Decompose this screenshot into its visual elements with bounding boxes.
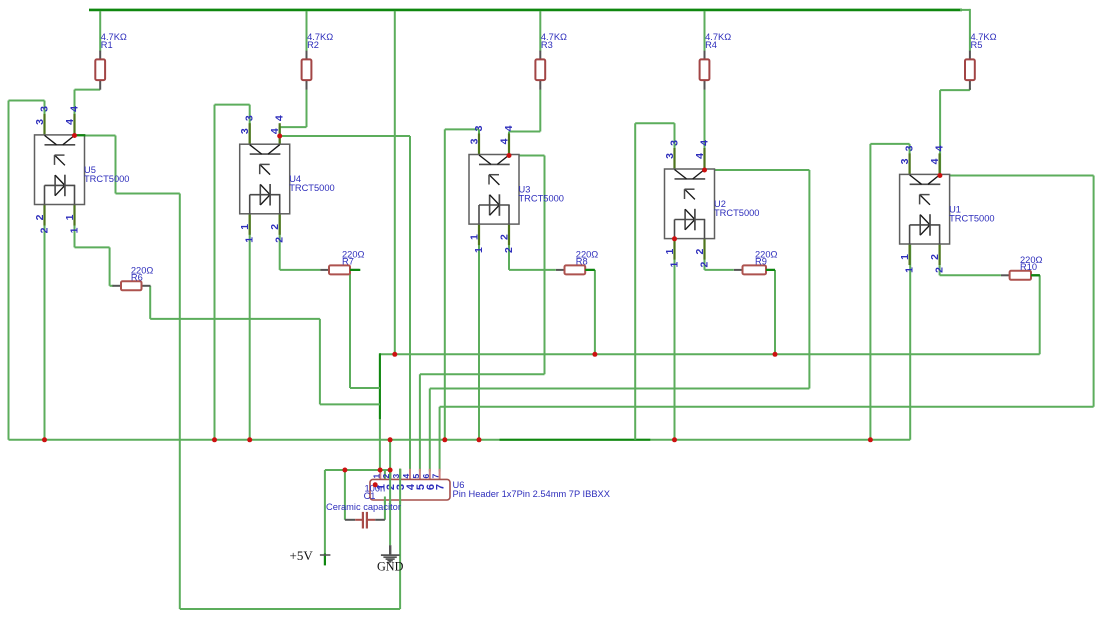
wire U1 pin1 to GND bus — [909, 244, 911, 440]
node +5V rail junction R9 — [773, 352, 778, 357]
svg-text:2: 2 — [929, 254, 941, 260]
wire R1 to U5 pin4 — [75, 90, 101, 136]
svg-text:4: 4 — [274, 115, 286, 121]
wire bus drop to R3 — [539, 11, 541, 51]
ground GND symbol — [377, 545, 404, 573]
wire U3 pin1 to GND bus — [478, 224, 480, 440]
node U4 collector junction — [277, 134, 282, 139]
resistor R2 4.7KΩ — [302, 32, 334, 90]
resistor R1 4.7KΩ — [95, 32, 127, 90]
optocoupler U3 TRCT5000 — [469, 125, 564, 253]
svg-text:4: 4 — [269, 128, 281, 134]
wire R3 to U3 pin4 — [509, 90, 540, 156]
svg-text:R7: R7 — [342, 257, 354, 267]
svg-text:Ceramic capacitor: Ceramic capacitor — [326, 502, 401, 512]
svg-text:4: 4 — [699, 140, 711, 146]
wire +5V LED rail — [380, 353, 1040, 355]
wire U4 pin1 to GND bus — [249, 214, 251, 440]
svg-text:1: 1 — [904, 267, 916, 273]
wire bus drop to R1 — [99, 11, 101, 51]
svg-text:3: 3 — [239, 128, 251, 134]
svg-text:C1: C1 — [364, 491, 376, 501]
wire GND bottom bus — [9, 439, 911, 441]
svg-text:R9: R9 — [755, 257, 767, 267]
wire top bus right extension to R5 — [960, 9, 970, 51]
pin header U6 Pin Header 1x7Pin 2.54mm 7P IBBXX — [370, 469, 610, 500]
node U3 collector junction — [507, 153, 512, 158]
svg-text:3: 3 — [39, 106, 51, 112]
svg-text:TRCT5000: TRCT5000 — [949, 213, 994, 223]
svg-text:5: 5 — [411, 473, 421, 478]
wire R4 to U2 pin4 — [704, 90, 706, 170]
node U5 collector junction — [72, 133, 77, 138]
svg-text:1: 1 — [473, 247, 485, 253]
wire U1 pin2 to R10 — [940, 244, 1001, 275]
svg-text:1: 1 — [669, 262, 681, 268]
svg-text:3: 3 — [904, 145, 916, 151]
wire U2 pin2 to R9 — [705, 239, 734, 270]
svg-text:3: 3 — [244, 115, 256, 121]
wire overlay U5 collector over box edge — [75, 134, 86, 136]
svg-text:2: 2 — [694, 249, 706, 255]
node header pin1 junction — [378, 468, 383, 473]
node GND bus junction U3 pin1 — [477, 437, 482, 442]
svg-text:4: 4 — [69, 106, 81, 112]
node GND bus junction U3 pin3 — [442, 437, 447, 442]
wire C1 left lead up — [344, 470, 346, 520]
wire bus drop to R4 — [704, 11, 706, 51]
capacitor C1 100n ceramic — [326, 484, 401, 529]
svg-text:1: 1 — [244, 237, 256, 243]
svg-text:7: 7 — [435, 484, 447, 490]
svg-text:2: 2 — [274, 237, 286, 243]
node GND bus junction U5 pin2 — [42, 437, 47, 442]
resistor R8 220Ω — [556, 250, 598, 275]
node C1 left junction — [342, 468, 347, 473]
svg-text:3: 3 — [34, 119, 46, 125]
wire +5V top bus — [89, 9, 962, 12]
svg-text:7: 7 — [431, 473, 441, 478]
resistor R10 220Ω — [1001, 255, 1043, 280]
svg-text:2: 2 — [503, 247, 515, 253]
svg-text:4: 4 — [503, 125, 515, 131]
wire overlay R10 right pin — [1031, 274, 1040, 276]
svg-text:4: 4 — [401, 473, 411, 478]
svg-text:R4: R4 — [705, 40, 717, 50]
svg-text:1: 1 — [239, 224, 251, 230]
svg-text:3: 3 — [669, 140, 681, 146]
svg-text:Pin Header 1x7Pin 2.54mm 7P IB: Pin Header 1x7Pin 2.54mm 7P IBBXX — [453, 489, 610, 499]
wire overlay R8 right pin — [585, 269, 595, 271]
node U1 collector junction — [937, 173, 942, 178]
wire bus drop to R2 — [306, 11, 308, 51]
svg-text:R10: R10 — [1020, 262, 1037, 272]
svg-text:TRCT5000: TRCT5000 — [714, 208, 759, 218]
wire header pin2 pin3 overlays — [385, 469, 400, 504]
wire C1 right lead up — [384, 470, 386, 520]
svg-text:R5: R5 — [971, 40, 983, 50]
svg-text:3: 3 — [664, 153, 676, 159]
wire U5 pin3 to GND bus — [9, 101, 45, 135]
optocoupler U1 TRCT5000 — [899, 145, 994, 273]
wire +5V symbol drop — [324, 470, 326, 554]
svg-text:TRCT5000: TRCT5000 — [84, 174, 129, 184]
wire +5V feed to header pin1 — [379, 353, 381, 470]
wire U2 pin1 to GND bus — [674, 239, 676, 440]
wire U5 collector to header pin3 — [75, 136, 401, 610]
wire U3 collector to header pin5 — [420, 156, 545, 472]
wire GND bus to header pin2 and GND symbol — [389, 440, 391, 545]
node C1 designator dot — [373, 482, 378, 487]
svg-text:4: 4 — [499, 138, 511, 144]
wire U1 collector to header pin7 — [440, 176, 1094, 472]
resistor R3 4.7KΩ — [535, 32, 567, 90]
svg-text:1: 1 — [64, 214, 76, 220]
node GND bus junction U4 pin1 — [247, 437, 252, 442]
wire U1 pin3 to GND bus — [870, 144, 909, 440]
wire R8 to +5V rail — [594, 270, 596, 354]
wire GND bus left riser — [8, 101, 10, 440]
wire R5 to U1 pin4 — [940, 88, 970, 176]
wire U5 pin1 to R6 — [75, 205, 114, 286]
svg-text:TRCT5000: TRCT5000 — [289, 183, 334, 193]
node U2 collector junction — [702, 168, 707, 173]
svg-text:1: 1 — [371, 473, 381, 478]
svg-text:1: 1 — [469, 234, 481, 240]
svg-text:R3: R3 — [541, 40, 553, 50]
svg-text:TRCT5000: TRCT5000 — [519, 194, 564, 204]
svg-text:3: 3 — [469, 138, 481, 144]
node U2 pin1 junction — [672, 236, 677, 241]
svg-text:3: 3 — [473, 125, 485, 131]
svg-text:2: 2 — [34, 214, 46, 220]
wire +5V long drop to LED rail — [394, 11, 396, 354]
wire U4 collector to header pin4 — [280, 136, 410, 472]
wire overlay R9 right pin — [766, 269, 775, 271]
svg-text:1: 1 — [899, 254, 911, 260]
svg-text:R1: R1 — [101, 40, 113, 50]
resistor R5 4.7KΩ — [965, 32, 997, 90]
svg-text:1: 1 — [69, 227, 81, 233]
svg-text:2: 2 — [934, 267, 946, 273]
svg-text:2: 2 — [699, 262, 711, 268]
resistor R9 220Ω — [734, 250, 778, 275]
node +5V rail junction R8 — [592, 352, 597, 357]
svg-text:2: 2 — [39, 227, 51, 233]
wire U4 pin3 to GND bus — [215, 105, 250, 440]
svg-text:R6: R6 — [131, 272, 143, 282]
svg-text:GND: GND — [377, 560, 404, 574]
optocoupler U5 TRCT5000 — [34, 106, 129, 234]
wire overlay R7 right pin — [350, 269, 360, 271]
node GND bus junction header pin2 — [388, 437, 393, 442]
svg-text:4: 4 — [64, 119, 76, 125]
svg-text:3: 3 — [899, 158, 911, 164]
svg-text:6: 6 — [421, 473, 431, 478]
wire U3 pin2 to R8 — [509, 224, 556, 270]
wire U4 pin2 to R7 — [280, 214, 321, 270]
wire U2 pin3 to GND bus — [635, 123, 674, 440]
resistor R4 4.7KΩ — [700, 32, 732, 90]
resistor R6 220Ω — [112, 266, 153, 291]
wire R6 to +5V rail — [150, 286, 380, 405]
svg-text:4: 4 — [934, 145, 946, 151]
svg-text:R8: R8 — [576, 257, 588, 267]
resistor R7 220Ω — [320, 250, 364, 275]
node GND bus junction U1 pin3 — [868, 437, 873, 442]
optocoupler U4 TRCT5000 — [239, 115, 334, 243]
node header pin2 top junction — [388, 468, 393, 473]
svg-text:2: 2 — [269, 224, 281, 230]
power +5V symbol — [290, 548, 331, 565]
wire U2 collector to header pin6 — [430, 170, 810, 472]
node GND bus junction U4 pin3 — [212, 437, 217, 442]
wire R10 to +5V rail — [1031, 275, 1040, 354]
wire U3 pin3 to GND bus — [445, 129, 479, 439]
svg-text:4: 4 — [929, 158, 941, 164]
wire U5 pin2 to GND bus — [44, 205, 46, 440]
node GND bus junction U2 pin1 — [672, 437, 677, 442]
svg-text:4: 4 — [694, 153, 706, 159]
wire R2 to U4 pin4 — [280, 90, 307, 145]
svg-text:1: 1 — [664, 249, 676, 255]
svg-text:2: 2 — [499, 234, 511, 240]
wire +5V horizontal near header — [325, 469, 390, 471]
optocoupler U2 TRCT5000 — [664, 140, 759, 268]
node +5V rail junction drop — [392, 352, 397, 357]
svg-text:R2: R2 — [307, 40, 319, 50]
wire R9 to +5V rail — [774, 270, 776, 354]
svg-text:+5V: +5V — [290, 548, 314, 563]
wire R7 to +5V rail — [350, 270, 380, 388]
